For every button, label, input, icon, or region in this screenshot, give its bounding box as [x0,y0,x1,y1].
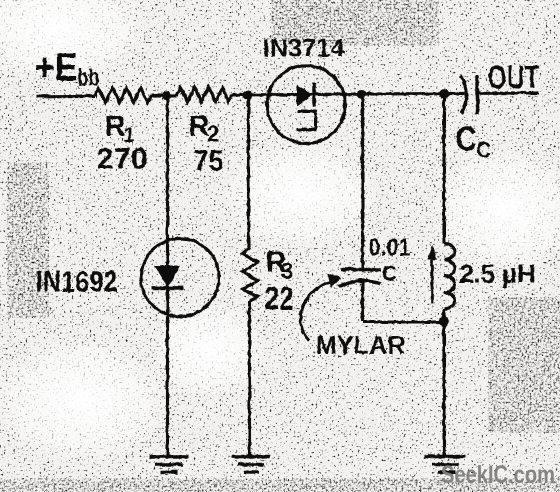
svg-text:C: C [476,136,490,162]
svg-text:C: C [455,119,476,158]
svg-text:R: R [104,110,125,142]
svg-text:bb: bb [77,64,99,91]
svg-text:22: 22 [264,280,293,316]
svg-text:IN1692: IN1692 [35,265,117,298]
svg-text:+E: +E [34,45,77,89]
svg-text:75: 75 [193,144,223,177]
svg-text:2.5 µH: 2.5 µH [459,258,535,288]
svg-text:IN3714: IN3714 [262,34,344,62]
svg-text:OUT: OUT [487,58,539,95]
svg-text:2: 2 [206,120,219,146]
svg-text:0.01: 0.01 [368,234,410,261]
svg-text:C: C [381,262,396,285]
svg-text:270: 270 [96,142,147,175]
svg-text:MYLAR: MYLAR [315,331,405,359]
svg-text:SeekIC.com: SeekIC.com [441,461,555,489]
